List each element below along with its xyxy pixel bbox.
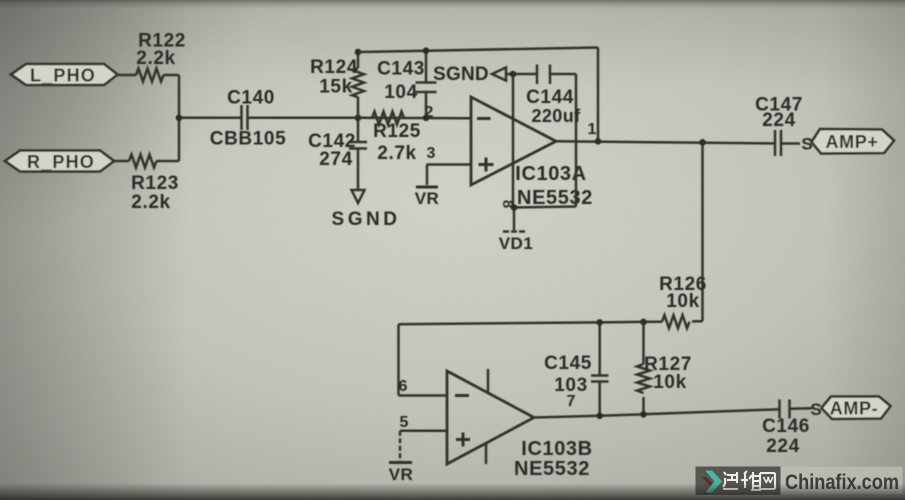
power VR upper [415,165,440,209]
node output tag AMP- [822,397,891,420]
wire down to R126 [701,142,704,321]
node C143 top [423,47,430,54]
node pin2 junction [423,115,430,122]
capacitor C143 [377,51,436,118]
node junction A [176,115,183,122]
capacitor C146 [762,400,810,458]
wire [164,74,180,77]
pin 8 node [511,204,518,211]
wire output IC103A [556,141,775,143]
node C145 top [596,319,603,326]
wire joining bus [178,75,181,161]
node R127 top [640,319,647,326]
node SGND corner [510,71,517,78]
node junction B [355,115,362,122]
resistor R122 [136,31,186,82]
wire pin 5 [400,430,447,433]
power rail box IC103A [513,74,576,208]
ground SGND lower [332,190,401,230]
capacitor C140 [210,88,286,150]
op-amp U2 IC103B [447,369,593,480]
node R127 bottom [640,411,647,418]
node input tag L_PHO [11,64,118,86]
wire pin 6 [399,394,448,397]
wire [248,117,359,120]
node output pin1 [595,138,602,145]
wire [781,142,800,145]
capacitor C147 [755,95,803,157]
resistor R127 [637,322,692,414]
node C145 bottom [596,413,603,420]
wire [179,117,242,120]
node input tag R_PHO [5,151,114,173]
capacitor C144 [526,65,581,127]
node R124 top [355,49,362,56]
watermark chinafix [696,467,903,496]
ground SGND upper with arrow [433,64,513,85]
resistor R123 [129,155,179,214]
capacitor C145 [544,322,608,415]
photo edge shading [0,0,905,9]
resistor R125 [372,112,421,165]
wire feedback loop lower [399,321,703,395]
resistor R124 [310,52,364,118]
node branch to R126 [699,139,706,146]
resistor R126 [659,274,707,328]
power VR lower [389,431,414,484]
wire output IC103B [534,409,779,417]
node output tag AMP+ [812,129,895,154]
wire [118,74,137,77]
wire op-amp inverting input [358,117,471,120]
capacitor C142 [308,118,367,190]
op-amp U1 IC103A [471,97,593,209]
wire [112,160,130,163]
wire op-amp non-inverting input [427,163,472,166]
power VD1 [499,208,534,254]
wire [790,407,813,410]
wire feedback top [358,48,598,53]
wire [157,160,180,163]
wire feedback right drop [597,48,600,142]
